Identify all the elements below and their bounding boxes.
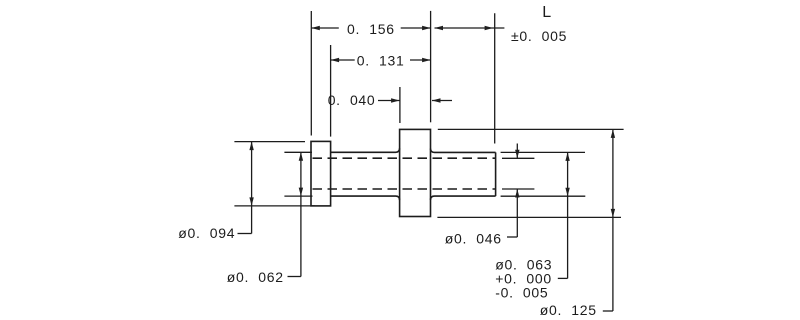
svg-text:ø0. 062: ø0. 062 — [227, 269, 284, 285]
svg-text:ø0. 094: ø0. 094 — [178, 225, 235, 241]
svg-text:ø0. 125: ø0. 125 — [540, 302, 597, 318]
svg-text:0. 156: 0. 156 — [347, 21, 395, 37]
svg-text:ø0. 046: ø0. 046 — [445, 230, 502, 246]
svg-text:L: L — [542, 4, 551, 21]
svg-text:±0. 005: ±0. 005 — [511, 28, 567, 44]
svg-text:0. 131: 0. 131 — [357, 53, 405, 69]
svg-text:0. 040: 0. 040 — [328, 92, 376, 108]
svg-text:-0. 005: -0. 005 — [495, 285, 548, 301]
